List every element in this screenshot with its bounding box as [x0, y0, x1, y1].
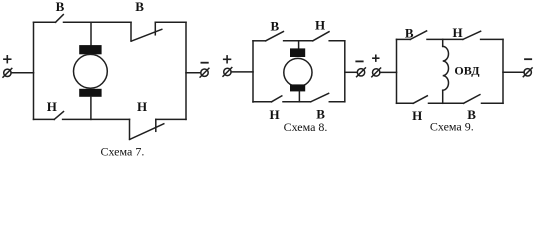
wire bottom bus segment 2 (schema 9)	[429, 102, 464, 104]
wire minus stub (schema 9)	[503, 71, 524, 73]
plus sign (left supply, schema 7)	[4, 56, 11, 63]
motor M2 armature	[284, 58, 312, 86]
wire motor bottom lead (schema 8)	[298, 91, 300, 102]
NC contact В blade	[131, 29, 162, 41]
switch blade Н (bottom-left, schema 9)	[413, 96, 427, 104]
wire top bus segment 3 (schema 8)	[329, 40, 345, 42]
wire left bus (schema 9)	[396, 39, 398, 103]
wire bottom bus segment 3	[156, 118, 186, 120]
brush top (motor M2)	[290, 48, 305, 57]
wire bottom bus segment 1 (schema 9)	[397, 102, 414, 104]
svg-text:В: В	[316, 106, 325, 121]
svg-text:В: В	[270, 18, 279, 33]
brush bottom (motor M2)	[290, 84, 305, 91]
svg-text:Н: Н	[47, 99, 57, 114]
wire bottom bus segment 1	[34, 118, 55, 120]
terminal - (schema 9)	[523, 68, 532, 77]
wire top bus segment 2	[64, 21, 132, 23]
wire bottom bus segment 1 (schema 8)	[253, 101, 272, 103]
wire bottom bus segment 2 (schema 8)	[283, 101, 311, 103]
wire bottom bus segment 3 (schema 9)	[482, 102, 504, 104]
minus sign (schema 8)	[356, 60, 362, 62]
svg-text:В: В	[56, 0, 65, 14]
NC contact Н blade	[130, 124, 164, 140]
wire motor top lead (schema 8)	[298, 41, 300, 49]
wire coil bottom lead	[442, 90, 444, 103]
NC contact Н right stub	[155, 119, 157, 131]
minus sign (schema 7)	[201, 62, 207, 64]
switch blade Н (top-right, schema 8)	[313, 32, 329, 41]
terminal + (schema 8)	[223, 68, 232, 77]
wire motor top lead	[90, 22, 92, 45]
svg-text:В: В	[135, 0, 144, 14]
terminal - (schema 7)	[200, 68, 209, 77]
wire motor bottom lead	[90, 97, 92, 120]
switch blade В (bottom-right, schema 9)	[464, 95, 480, 104]
NC contact В right stub	[154, 22, 156, 35]
wire bottom bus segment 2	[63, 118, 130, 120]
inductor ОВД (field winding)	[443, 46, 449, 90]
wire top bus segment 3	[155, 21, 186, 23]
wire right bus (schema 9)	[502, 39, 504, 103]
wire terminal to left bus (schema 8)	[231, 71, 253, 73]
NC contact В (top-right, schema 7): left stub	[130, 22, 132, 41]
svg-text:Н: Н	[412, 108, 422, 123]
wire left bus (schema 7)	[33, 22, 35, 119]
wire minus stub (schema 8)	[345, 71, 358, 73]
svg-text:Схема 7.: Схема 7.	[100, 145, 144, 159]
terminal + (schema 7)	[3, 68, 12, 77]
wire coil top lead	[442, 39, 444, 46]
wire left bus (schema 8)	[252, 41, 254, 102]
wire top bus segment 2 (schema 9)	[427, 38, 463, 40]
NC contact Н (bottom-right, schema 7): left stub	[129, 119, 131, 139]
wire top bus segment 3 (schema 9)	[481, 38, 503, 40]
switch blade В (top-left, schema 8)	[266, 32, 284, 41]
svg-text:Н: Н	[315, 17, 325, 32]
svg-text:Схема 9.: Схема 9.	[430, 120, 474, 134]
wire top bus segment 1 (schema 8)	[253, 40, 266, 42]
switch blade В (top-left, schema 7)	[56, 15, 64, 23]
wire top bus segment 2 (schema 8)	[284, 40, 313, 42]
wire right bus (schema 7)	[185, 22, 187, 119]
switch blade В (bottom-right, schema 8)	[311, 93, 329, 101]
switch blade Н (bottom-left, schema 8)	[272, 96, 282, 102]
wire top bus segment 1	[34, 21, 56, 23]
terminal - (schema 8)	[357, 68, 366, 77]
wire bottom bus segment 3 (schema 8)	[329, 101, 345, 103]
svg-text:В: В	[405, 26, 414, 41]
svg-text:ОВД: ОВД	[454, 64, 480, 78]
switch blade Н (bottom-left, schema 7)	[54, 112, 63, 120]
svg-text:Н: Н	[453, 25, 463, 40]
svg-text:Схема 8.: Схема 8.	[284, 120, 328, 134]
wire terminal to left bus	[11, 72, 33, 74]
brush bottom (motor M1)	[79, 89, 101, 97]
terminal + (schema 9)	[372, 68, 381, 77]
plus sign (schema 9)	[373, 55, 379, 61]
svg-text:Н: Н	[137, 99, 147, 114]
brush top (motor M1)	[79, 45, 101, 54]
svg-text:Н: Н	[269, 107, 279, 122]
motor M1 armature	[74, 54, 108, 88]
switch blade В (top-left, schema 9)	[410, 31, 426, 40]
wire minus stub (schema 7)	[186, 72, 201, 74]
plus sign (schema 8)	[224, 56, 231, 63]
wire terminal to left bus (schema 9)	[380, 71, 397, 73]
wire right bus (schema 8)	[344, 41, 346, 102]
switch blade Н (top-right, schema 9)	[463, 31, 481, 39]
minus sign (schema 9)	[525, 58, 531, 60]
wire top bus segment 1 (schema 9)	[397, 38, 411, 40]
